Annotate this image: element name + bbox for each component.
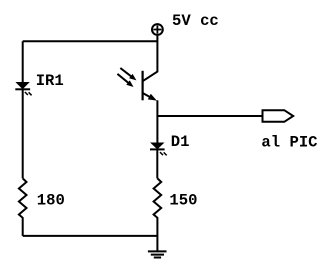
- svg-text:150: 150: [169, 191, 197, 209]
- svg-text:180: 180: [37, 191, 65, 209]
- svg-text:IR1: IR1: [36, 72, 64, 90]
- svg-text:D1: D1: [171, 133, 190, 151]
- svg-text:al PIC: al PIC: [261, 133, 317, 151]
- svg-text:5V cc: 5V cc: [172, 12, 219, 30]
